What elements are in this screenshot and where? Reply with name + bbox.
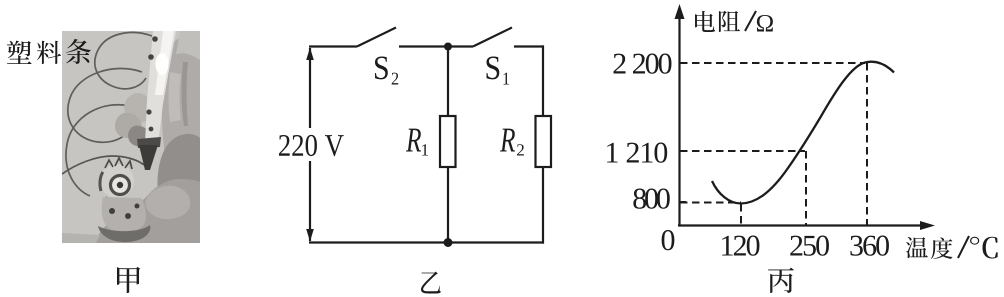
- x label 250: [790, 236, 829, 256]
- hair spikes: [105, 158, 132, 169]
- dark shadow under figure: [98, 225, 150, 242]
- node top junction: [444, 43, 452, 51]
- thumb: [145, 186, 190, 220]
- resistance curve: [712, 62, 894, 204]
- wire S1 to top-right corner: [514, 45, 544, 47]
- wire loop 1: [95, 32, 152, 88]
- switch S2 blade: [357, 28, 396, 47]
- figure head: [100, 164, 134, 198]
- figure body: [102, 197, 146, 232]
- caption 甲: [117, 267, 140, 293]
- node bottom junction: [444, 238, 453, 247]
- hand fingers right: [162, 34, 200, 160]
- x label 360: [850, 236, 889, 256]
- label S2: [375, 56, 388, 79]
- x label 120: [722, 236, 759, 256]
- bottom-left corner shade: [62, 233, 100, 243]
- x axis: [678, 224, 928, 226]
- source line lower with down arrow: [309, 161, 311, 241]
- wire right branch upper: [542, 45, 544, 116]
- wire middle branch lower: [447, 167, 449, 243]
- source line upper with up arrow: [309, 48, 311, 128]
- y label 800: [633, 189, 669, 209]
- resistor R1 box: [440, 116, 456, 167]
- pen dark tip: [139, 145, 158, 170]
- pen dots: [152, 36, 158, 42]
- pen dark collar: [137, 137, 161, 148]
- dark mid-right hand shadow: [158, 134, 201, 198]
- finger highlight streak: [169, 72, 182, 122]
- y tick 1210: [680, 150, 687, 152]
- plastic pen body: [145, 31, 176, 144]
- y axis: [678, 8, 680, 226]
- grip fingertips: [124, 93, 152, 123]
- wire S2 to node: [399, 45, 448, 47]
- wire node to S1 pivot: [448, 45, 473, 47]
- axis title 电阻/Ω: [695, 11, 773, 32]
- y label 1 210: [607, 143, 667, 163]
- palm bottom: [96, 179, 200, 243]
- label 220 V: [279, 135, 344, 156]
- label S1: [487, 56, 500, 79]
- dashed horizontal 1210: [680, 150, 805, 152]
- dashed vertical 120: [740, 204, 742, 225]
- label R2: [500, 129, 515, 152]
- top right lighter finger: [176, 31, 200, 60]
- wire right branch lower: [542, 167, 544, 244]
- fingertip shadow: [128, 126, 150, 147]
- wire to pen tip: [62, 156, 144, 174]
- axis title 温度/℃: [906, 236, 998, 259]
- resistor R2 box: [536, 116, 552, 167]
- finger gap shade: [182, 62, 188, 126]
- wire loop 3: [66, 105, 130, 196]
- caption 丙: [768, 268, 794, 293]
- wire bottom: [309, 241, 544, 243]
- y tick 2200: [680, 62, 687, 64]
- dashed vertical 360: [866, 63, 868, 225]
- switch S1 blade: [473, 28, 512, 47]
- photo background 甲: [62, 31, 200, 243]
- label 塑料条: [7, 39, 91, 64]
- goggle ring: [111, 176, 130, 195]
- dashed horizontal 2200: [680, 62, 865, 64]
- caption 乙: [421, 271, 441, 293]
- label R1: [406, 129, 421, 152]
- goggle strap dark arc: [100, 172, 103, 191]
- wire loop 2: [68, 68, 142, 142]
- y tick 800: [680, 201, 687, 203]
- origin 0: [662, 230, 675, 250]
- dashed horizontal 800: [680, 202, 741, 204]
- wire middle branch upper: [447, 47, 449, 117]
- pen highlight blob: [156, 53, 169, 75]
- mouth line: [106, 197, 130, 201]
- dashed vertical 250: [805, 151, 807, 225]
- y label 2 200: [614, 54, 672, 74]
- wire top-left segment: [309, 45, 357, 47]
